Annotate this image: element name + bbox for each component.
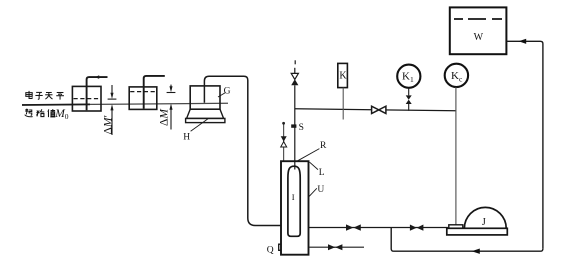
gauge Kc stem down to pump J — [455, 87, 457, 225]
feed line upper segment — [294, 68, 296, 74]
valve V5 (filled) — [346, 224, 361, 230]
dimension ΔM' level tick — [108, 98, 117, 100]
char 值 — [48, 109, 55, 117]
stand H trapezoid base — [187, 109, 224, 118]
leader line U — [309, 188, 317, 196]
dimension ΔM lower arrow — [169, 104, 172, 110]
dimension ΔM' lower arrow — [110, 104, 113, 110]
svg-text:ΔM′: ΔM′ — [102, 115, 114, 135]
drain line with valve V7 — [310, 246, 365, 248]
label: electronic balance text 电子天平 — [26, 91, 64, 100]
svg-text:S: S — [299, 123, 304, 133]
leader line L — [310, 162, 318, 169]
svg-text:L: L — [319, 168, 325, 178]
dimension ΔM level tick — [167, 92, 176, 94]
svg-text:H: H — [183, 133, 190, 143]
tank outlet line to right — [506, 41, 543, 248]
feed line top dash — [294, 60, 296, 64]
svg-text:J: J — [482, 217, 486, 228]
svg-text:I: I — [292, 192, 295, 202]
svg-text:K: K — [339, 71, 347, 82]
balance reference line — [22, 103, 228, 105]
pump J dome — [464, 207, 506, 228]
pump J base plate — [447, 228, 508, 235]
svg-text:U: U — [317, 185, 324, 195]
svg-text:K1: K1 — [402, 70, 414, 84]
svg-text:W: W — [474, 32, 484, 43]
leader line R — [298, 149, 320, 161]
beaker 1 — [72, 86, 101, 111]
return line bottom — [391, 228, 543, 252]
svg-text:Kc: Kc — [451, 70, 463, 84]
gauge K1 stem — [408, 88, 410, 111]
beaker 1 flow arrow (left) — [95, 75, 99, 79]
valve V3 (horizontal outline) — [372, 106, 386, 113]
gauge Kc — [445, 64, 468, 87]
beaker 1 tube with bend — [87, 77, 108, 110]
char 始 — [36, 109, 44, 116]
beaker 2 — [129, 87, 157, 110]
flowmeter K connecting line — [342, 88, 344, 120]
char 起 — [25, 109, 33, 117]
valve V2 (vertical small) — [281, 136, 287, 141]
leader line G — [218, 93, 225, 97]
beaker 1 liquid level dashes — [74, 98, 101, 100]
beaker 3 tube rising to line toward column — [204, 76, 281, 225]
tank W water level dashes — [454, 18, 502, 20]
char 天 — [45, 92, 52, 99]
svg-text:Q: Q — [267, 245, 274, 255]
valve V1 (vertical, top outline/bottom filled) — [291, 73, 298, 79]
label: initial value text 起始值 M0 — [25, 109, 56, 117]
port Q notch — [279, 244, 281, 250]
column outlet pipe to pump — [309, 227, 448, 229]
char 电 — [26, 91, 32, 99]
beaker 3 (G) — [190, 86, 220, 109]
adsorption cell outer column — [281, 161, 309, 255]
dimension ΔM' upper arrow — [111, 85, 113, 94]
feed line to adsorption cell — [294, 85, 296, 169]
pump J inlet port — [449, 225, 463, 229]
char 平 — [56, 92, 64, 99]
beaker 2 liquid level dashes — [130, 91, 156, 93]
node S junction marker — [291, 124, 296, 127]
char 子 — [35, 92, 42, 99]
water tank W — [450, 7, 507, 54]
valve V4 (vertical filled) — [406, 95, 412, 104]
flowmeter K — [338, 63, 348, 87]
flow arrow on return line (left) — [472, 249, 480, 254]
svg-text:R: R — [320, 141, 327, 151]
beaker 2 tube with bend — [144, 76, 165, 109]
vent line with valve V2 — [283, 123, 285, 162]
inner sample tube I — [288, 166, 300, 236]
svg-text:0: 0 — [65, 112, 69, 121]
dimension ΔM upper arrow — [170, 85, 172, 88]
gauge K1 — [397, 65, 420, 88]
flow arrow into tank (left) — [519, 39, 527, 44]
valve V6 (filled) — [410, 225, 424, 231]
main gas pipe — [295, 109, 457, 111]
leader line H — [191, 119, 208, 132]
svg-text:ΔM: ΔM — [159, 108, 171, 126]
svg-text:G: G — [224, 87, 231, 97]
